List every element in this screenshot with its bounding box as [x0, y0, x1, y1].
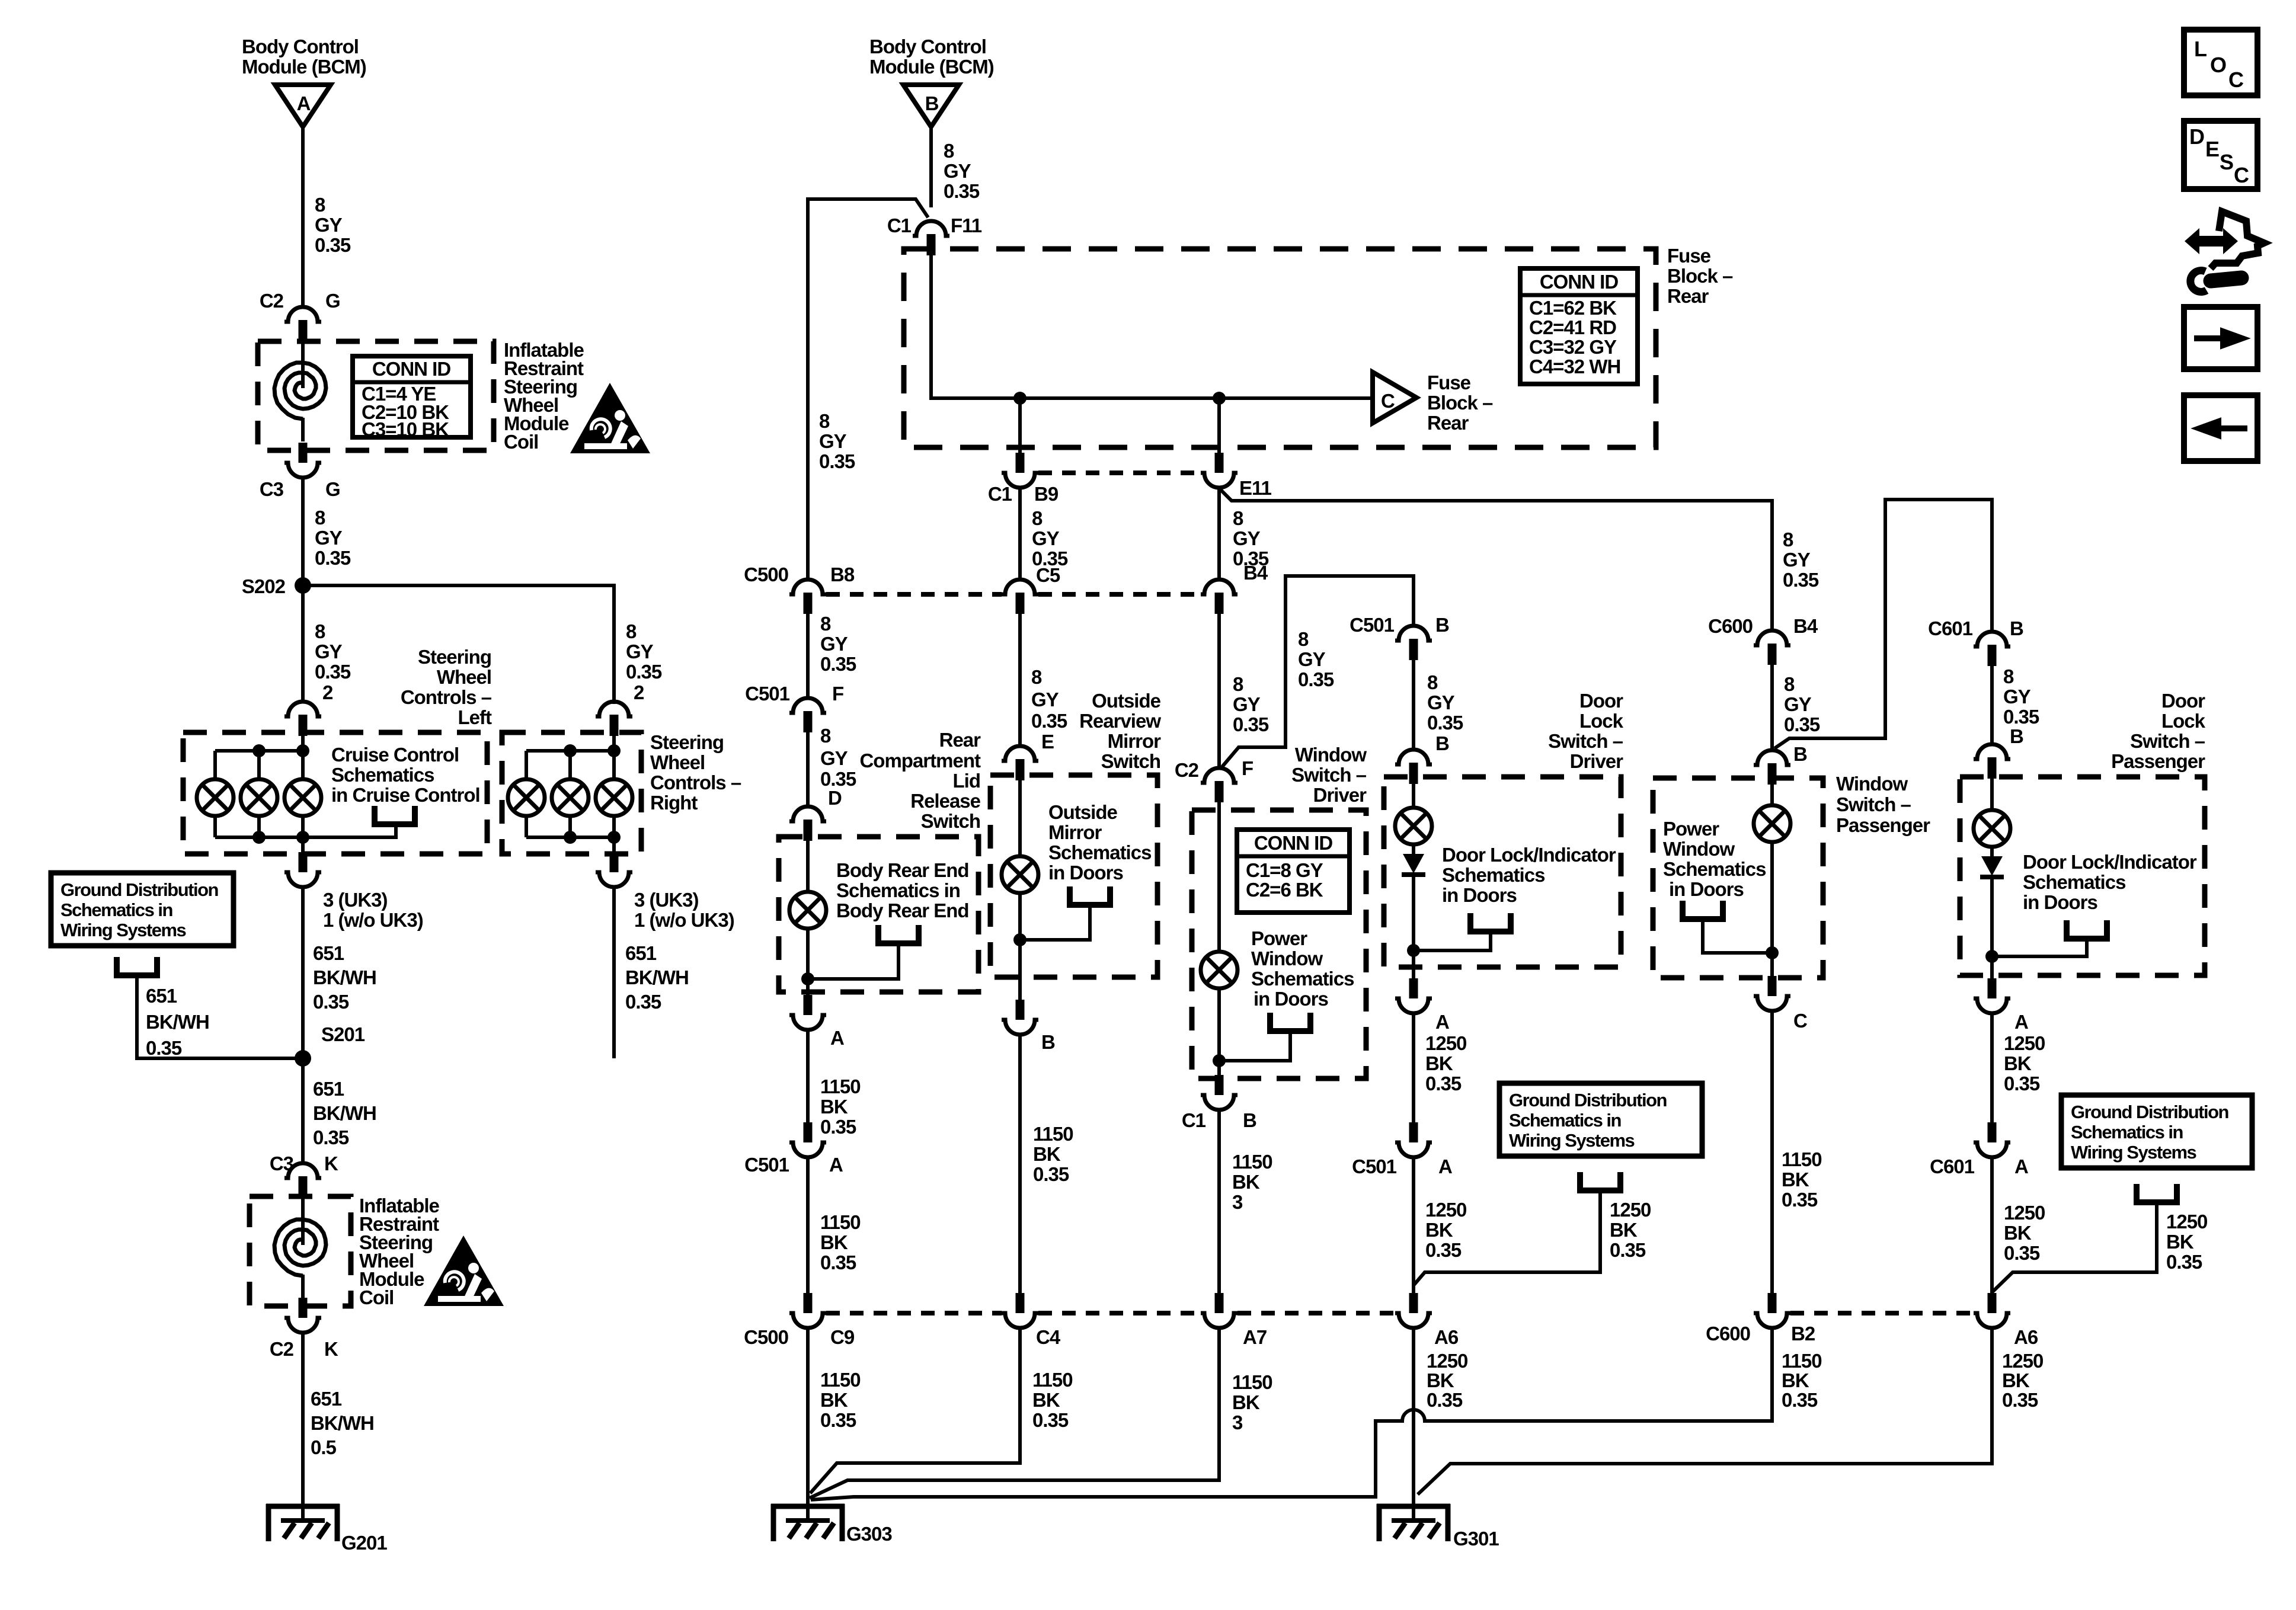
svg-text:Switch –: Switch –	[1291, 764, 1367, 786]
wire C4 to G303 route	[810, 1326, 1020, 1493]
Ground Distribution box (middle)	[1499, 1083, 1702, 1156]
svg-text:651: 651	[313, 942, 344, 964]
wire into box to lamp	[1217, 802, 1221, 952]
wire B to C500 C4	[1018, 1033, 1022, 1294]
svg-text:in Doors: in Doors	[1253, 988, 1328, 1010]
svg-text:8: 8	[315, 194, 325, 216]
svg-text:BK: BK	[1232, 1171, 1260, 1193]
svg-text:0.35: 0.35	[820, 1116, 856, 1138]
wire into box to lamp	[1990, 778, 1994, 810]
svg-text:BK: BK	[1782, 1369, 1809, 1391]
svg-text:E: E	[1041, 731, 1054, 753]
svg-text:8: 8	[1427, 671, 1438, 693]
svg-text:GY: GY	[2003, 686, 2031, 708]
CONN ID table (coil)	[353, 356, 471, 440]
svg-text:BK: BK	[1232, 1391, 1260, 1413]
outside mirror dashed box	[990, 775, 1157, 977]
svg-text:Driver: Driver	[1313, 784, 1367, 806]
svg-text:K: K	[324, 1153, 338, 1174]
svg-text:Release: Release	[910, 790, 980, 812]
svg-text:0.35: 0.35	[1784, 713, 1820, 735]
wire B2 to G303 route (hops over A6 wire)	[811, 1326, 1772, 1500]
connector C3 pin G (exit coil)	[284, 443, 321, 478]
svg-text:G303: G303	[846, 1523, 892, 1545]
connector C2 pin K (exit coil bottom)	[284, 1298, 321, 1333]
wire C9 to G303	[806, 1326, 810, 1521]
svg-text:S201: S201	[321, 1023, 365, 1045]
wire to A7	[1217, 1108, 1221, 1294]
connector exit right steering	[596, 852, 632, 887]
lamp left 3	[284, 779, 321, 816]
fuse block rear dashed box	[904, 249, 1656, 447]
wire to B	[1412, 660, 1415, 750]
svg-text:8: 8	[820, 613, 831, 635]
lamp left 2	[241, 779, 277, 816]
svg-text:A: A	[830, 1027, 844, 1049]
wire C to C600 B2	[1770, 1009, 1774, 1294]
svg-text:0.5: 0.5	[311, 1436, 337, 1458]
svg-text:Rear: Rear	[1667, 285, 1709, 307]
svg-text:C: C	[2234, 163, 2249, 187]
svg-text:0.35: 0.35	[944, 180, 980, 202]
svg-text:3 (UK3): 3 (UK3)	[634, 889, 699, 911]
bracket symbol (cruise)	[375, 806, 415, 824]
svg-text:Cruise Control: Cruise Control	[331, 744, 459, 766]
svg-text:0.35: 0.35	[315, 547, 351, 569]
wire A to C501 A	[806, 1028, 810, 1124]
ground G303	[771, 1504, 845, 1541]
bracket symbol (window driver)	[1270, 1013, 1310, 1031]
wire lamp to junction + bracket stem	[808, 929, 898, 995]
connector exit left steering	[284, 852, 321, 887]
svg-text:Schematics: Schematics	[1048, 841, 1151, 863]
driver branch U to C501 B	[1222, 576, 1414, 767]
lamp (door lock driver)	[1395, 808, 1432, 844]
svg-text:Ground Distribution: Ground Distribution	[60, 879, 219, 900]
svg-text:GY: GY	[315, 527, 343, 549]
connector C1 pin B9	[1002, 453, 1038, 488]
svg-text:Switch: Switch	[921, 810, 980, 832]
wire lamp to junction + bracket stem	[1219, 988, 1290, 1075]
svg-text:GY: GY	[1032, 527, 1060, 549]
svg-text:2: 2	[634, 681, 644, 703]
svg-text:GY: GY	[1031, 689, 1059, 710]
diode symbol (passenger)	[1990, 847, 1994, 856]
svg-text:Rearview: Rearview	[1079, 710, 1161, 732]
body rear end dashed box	[779, 837, 978, 992]
svg-text:A: A	[2014, 1011, 2028, 1033]
svg-text:Passenger: Passenger	[2111, 750, 2205, 772]
wire diode to junction + bracket stem	[1992, 878, 2087, 978]
svg-text:C4=32 WH: C4=32 WH	[1529, 356, 1620, 377]
svg-text:0.35: 0.35	[1032, 1409, 1069, 1431]
svg-text:Window: Window	[1251, 948, 1323, 969]
wire A6 to G301 route	[1418, 1326, 1992, 1494]
svg-text:BK: BK	[1425, 1219, 1453, 1241]
connector C600 pin A6 (passenger)	[1974, 1293, 2010, 1328]
svg-text:Lid: Lid	[953, 770, 980, 792]
svg-text:0.35: 0.35	[315, 661, 351, 683]
BCM triangle A	[275, 85, 331, 127]
svg-text:C600: C600	[1708, 615, 1753, 637]
connector exit pin A (driver)	[1395, 978, 1432, 1013]
lamp right 3	[596, 779, 632, 816]
svg-text:E: E	[2205, 137, 2220, 161]
wire F to D	[806, 732, 810, 807]
junction dot	[1213, 1054, 1226, 1067]
svg-text:8: 8	[820, 725, 831, 747]
svg-text:Schematics in: Schematics in	[2071, 1122, 2183, 1142]
lamp (door lock passenger)	[1974, 810, 2010, 847]
ground G201	[266, 1504, 340, 1541]
wire A to C601 A	[1990, 1012, 1994, 1124]
service/wrench icon	[2185, 212, 2264, 292]
left arrow icon box	[2184, 395, 2257, 461]
cruise control dashed box	[183, 732, 487, 854]
wire C5 to E	[1018, 613, 1022, 747]
svg-text:8: 8	[1032, 507, 1043, 529]
wire B to C1/F11	[929, 126, 933, 207]
svg-text:S: S	[2220, 150, 2234, 174]
svg-text:C500: C500	[744, 564, 788, 585]
svg-text:Left: Left	[458, 706, 493, 728]
svg-text:B: B	[1435, 732, 1449, 754]
svg-text:Switch –: Switch –	[1836, 793, 1911, 815]
svg-text:1150: 1150	[1232, 1151, 1272, 1173]
svg-text:BK: BK	[820, 1231, 848, 1253]
svg-text:Schematics: Schematics	[331, 764, 434, 786]
svg-text:C1: C1	[988, 483, 1012, 505]
svg-text:0.35: 0.35	[1425, 1073, 1462, 1094]
svg-text:B8: B8	[830, 564, 855, 585]
wire C601A down	[1990, 1156, 1994, 1294]
svg-text:0.35: 0.35	[820, 653, 856, 675]
wire lamp to junction + bracket stem	[1703, 842, 1772, 980]
svg-text:Steering: Steering	[650, 731, 724, 753]
top bus right box	[526, 751, 614, 779]
svg-text:1250: 1250	[2002, 1350, 2043, 1372]
bracket symbol (door lock driver)	[1470, 913, 1511, 932]
junction dot B9 drop	[1013, 392, 1027, 405]
clockspring coil (bottom spiral)	[274, 1219, 326, 1276]
svg-text:Window: Window	[1295, 744, 1367, 766]
svg-text:1250: 1250	[1610, 1199, 1651, 1221]
svg-text:D: D	[2189, 124, 2205, 149]
svg-text:Mirror: Mirror	[1108, 730, 1162, 752]
svg-text:A: A	[1438, 1156, 1452, 1177]
svg-text:1150: 1150	[820, 1369, 861, 1391]
wire out of coil	[301, 418, 305, 441]
svg-text:Fuse: Fuse	[1427, 372, 1471, 393]
svg-text:K: K	[324, 1338, 338, 1360]
svg-text:1150: 1150	[1782, 1148, 1822, 1170]
svg-text:GY: GY	[944, 160, 971, 182]
lamp (outside mirror)	[1002, 856, 1038, 893]
svg-text:8: 8	[1233, 673, 1243, 695]
wire diode to junction + bracket stem	[1414, 876, 1491, 978]
svg-text:BK/WH: BK/WH	[313, 966, 376, 988]
svg-text:BK/WH: BK/WH	[625, 966, 689, 988]
wire B9 to C5	[1018, 486, 1022, 580]
svg-text:A: A	[297, 92, 311, 114]
svg-text:C2=41 RD: C2=41 RD	[1529, 316, 1616, 338]
svg-text:BK: BK	[1032, 1389, 1060, 1411]
wire out of right box	[612, 837, 616, 852]
svg-text:C5: C5	[1036, 564, 1060, 586]
svg-text:A: A	[1435, 1011, 1449, 1033]
svg-text:Controls –: Controls –	[401, 686, 492, 708]
svg-text:8: 8	[626, 620, 637, 642]
wire into box	[301, 734, 305, 779]
svg-text:0.35: 0.35	[1427, 1389, 1463, 1411]
svg-text:1250: 1250	[1427, 1350, 1467, 1372]
svg-text:8: 8	[1031, 666, 1042, 688]
svg-text:BK: BK	[2004, 1052, 2032, 1074]
connector exit pin A	[789, 995, 826, 1030]
svg-text:Switch: Switch	[1101, 750, 1160, 772]
svg-text:F: F	[1242, 757, 1253, 779]
Ground Distribution box (left)	[51, 873, 234, 946]
wire down to S201 line	[612, 885, 616, 1058]
svg-text:Door: Door	[1579, 690, 1623, 712]
svg-text:C1: C1	[887, 215, 912, 236]
svg-text:GY: GY	[1784, 693, 1812, 715]
CONN ID table (window switch driver)	[1237, 830, 1350, 913]
svg-text:C2: C2	[1175, 759, 1199, 781]
svg-text:651: 651	[625, 942, 657, 964]
svg-text:Lock: Lock	[1579, 710, 1624, 732]
svg-text:Passenger: Passenger	[1836, 814, 1930, 836]
svg-text:C3=32 GY: C3=32 GY	[1529, 336, 1617, 358]
right arrow icon box	[2184, 307, 2257, 369]
junction dot E11 drop	[1213, 392, 1226, 405]
svg-text:8: 8	[2003, 665, 2014, 687]
svg-text:Rear: Rear	[939, 729, 981, 751]
svg-text:Outside: Outside	[1048, 801, 1117, 823]
connector C600 pin B2	[1754, 1293, 1790, 1328]
wire into box to lamp	[1018, 780, 1022, 856]
svg-text:Compartment: Compartment	[859, 750, 981, 772]
junction dot	[1985, 950, 1998, 963]
connector pin 2 right steering	[596, 702, 632, 736]
svg-text:0.35: 0.35	[1031, 710, 1067, 732]
svg-text:Schematics: Schematics	[2023, 871, 2125, 893]
svg-text:C2: C2	[260, 290, 284, 312]
svg-text:1250: 1250	[2004, 1202, 2045, 1224]
wire lamp to junction + bracket stem	[1020, 893, 1090, 1001]
lamp right 2	[552, 779, 589, 816]
svg-text:1150: 1150	[820, 1211, 861, 1233]
junction dot	[1766, 946, 1779, 959]
wire into box to lamp	[806, 837, 810, 892]
svg-text:2: 2	[322, 681, 333, 703]
svg-text:B: B	[2010, 617, 2023, 639]
svg-text:Ground Distribution: Ground Distribution	[2071, 1102, 2229, 1122]
svg-text:B2: B2	[1791, 1323, 1815, 1345]
svg-text:GY: GY	[1427, 692, 1455, 713]
svg-text:0.35: 0.35	[1298, 668, 1334, 690]
bracket symbol (GD middle)	[1580, 1172, 1620, 1190]
svg-text:in Cruise Control: in Cruise Control	[331, 784, 480, 806]
svg-text:Rear: Rear	[1427, 412, 1469, 434]
svg-text:A7: A7	[1243, 1326, 1267, 1348]
svg-text:A6: A6	[2014, 1326, 2038, 1348]
svg-text:A: A	[829, 1154, 843, 1176]
svg-text:BK: BK	[1425, 1052, 1453, 1074]
svg-text:Wiring Systems: Wiring Systems	[1509, 1130, 1635, 1151]
svg-text:651: 651	[146, 985, 177, 1007]
svg-text:Switch –: Switch –	[2130, 730, 2205, 752]
svg-text:1 (w/o UK3): 1 (w/o UK3)	[634, 909, 734, 931]
lamp (power window driver)	[1201, 952, 1237, 988]
svg-text:1150: 1150	[1033, 1123, 1073, 1145]
BCM triangle B	[903, 85, 959, 127]
svg-text:0.35: 0.35	[1782, 1389, 1818, 1411]
wire into box to lamp	[1770, 784, 1774, 805]
svg-text:C501: C501	[745, 683, 790, 705]
passenger branch U to C601 B	[1774, 500, 1992, 748]
svg-text:BK: BK	[2002, 1369, 2030, 1391]
svg-text:G201: G201	[341, 1532, 387, 1554]
svg-text:G: G	[325, 290, 340, 312]
wire into bottom coil	[301, 1196, 305, 1245]
svg-text:Schematics: Schematics	[1442, 864, 1544, 886]
svg-text:S202: S202	[242, 575, 286, 597]
svg-text:BK: BK	[820, 1096, 848, 1118]
svg-text:C: C	[2228, 68, 2244, 92]
svg-text:8: 8	[944, 140, 954, 162]
svg-text:Block –: Block –	[1667, 265, 1733, 287]
wire C2/K to ground	[301, 1331, 305, 1521]
connector C501 pin A (driver)	[1395, 1122, 1432, 1157]
bracket symbol (body rear end)	[878, 925, 919, 943]
svg-text:3: 3	[1232, 1411, 1243, 1433]
junction dots top bus	[252, 744, 266, 757]
splice S202	[295, 577, 311, 594]
svg-text:Steering: Steering	[418, 646, 491, 668]
svg-text:GY: GY	[1783, 549, 1811, 571]
svg-text:0.35: 0.35	[820, 1251, 856, 1273]
svg-text:A6: A6	[1434, 1326, 1459, 1348]
svg-text:BK: BK	[1033, 1143, 1061, 1165]
connector exit pin C (passenger window)	[1754, 976, 1790, 1011]
junction dot	[801, 972, 814, 985]
svg-text:C2: C2	[270, 1338, 294, 1360]
branch wire to C500 B8 column	[808, 199, 928, 580]
svg-text:BK: BK	[1427, 1369, 1454, 1391]
connector C501 pin A	[789, 1122, 826, 1157]
wire S202 to right steering column	[303, 585, 614, 704]
junction dot	[1013, 933, 1027, 946]
svg-text:8: 8	[315, 620, 325, 642]
svg-text:in Doors: in Doors	[1442, 884, 1517, 906]
ground G301	[1377, 1504, 1450, 1541]
wire to B	[1990, 665, 1994, 745]
svg-text:8: 8	[819, 410, 830, 432]
junction dots bottom bus	[252, 831, 266, 844]
wire A to C501 A	[1412, 1012, 1415, 1124]
clockspring coil U (spiral)	[274, 363, 326, 419]
wire GD middle to A6 wire	[1414, 1190, 1600, 1285]
wire GD left to S201	[137, 975, 303, 1058]
svg-text:B: B	[2010, 725, 2023, 747]
LOC icon box	[2184, 30, 2257, 95]
svg-text:0.35: 0.35	[2004, 1242, 2040, 1264]
svg-text:BK: BK	[2166, 1231, 2194, 1253]
svg-text:0.35: 0.35	[2166, 1251, 2202, 1273]
coil dashed box (top)	[258, 341, 494, 450]
wire C3 to S202	[301, 476, 305, 702]
svg-text:C601: C601	[1928, 617, 1973, 639]
svg-text:GY: GY	[1298, 648, 1326, 670]
connector exit pin B (mirror)	[1002, 1000, 1038, 1035]
svg-text:C501: C501	[744, 1154, 789, 1176]
wire A to C2	[301, 126, 305, 308]
svg-text:0.35: 0.35	[1783, 569, 1819, 591]
svg-text:GY: GY	[315, 641, 343, 662]
svg-text:C500: C500	[744, 1326, 788, 1348]
svg-text:C1: C1	[1182, 1109, 1206, 1131]
svg-text:in Doors: in Doors	[1669, 878, 1744, 900]
svg-text:Wiring Systems: Wiring Systems	[2071, 1142, 2196, 1163]
svg-text:0.35: 0.35	[313, 1126, 349, 1148]
splice S201	[295, 1050, 311, 1067]
window switch driver dashed box	[1192, 810, 1366, 1078]
svg-text:Body Control: Body Control	[869, 36, 986, 57]
svg-text:GY: GY	[1233, 693, 1261, 715]
top bus left box	[215, 751, 303, 779]
svg-text:0.35: 0.35	[313, 991, 349, 1013]
connector pin D	[789, 806, 826, 841]
diode symbol (driver)	[1412, 844, 1415, 854]
svg-text:F11: F11	[951, 215, 982, 236]
svg-text:0.35: 0.35	[2004, 1073, 2040, 1094]
bracket symbol (door lock passenger)	[2067, 920, 2107, 939]
svg-text:0.35: 0.35	[315, 234, 351, 256]
svg-text:Coil: Coil	[359, 1286, 394, 1308]
svg-text:0.35: 0.35	[1610, 1239, 1646, 1261]
svg-text:Door Lock/Indicator: Door Lock/Indicator	[1442, 844, 1616, 866]
svg-text:B: B	[1041, 1031, 1055, 1053]
svg-text:B: B	[1793, 743, 1807, 765]
CONN ID table (fuse block)	[1520, 268, 1638, 384]
junction dot	[1407, 944, 1420, 957]
connector pin B (entry)	[1395, 750, 1432, 784]
svg-text:Module (BCM): Module (BCM)	[869, 56, 994, 78]
svg-text:GY: GY	[1233, 527, 1261, 549]
svg-text:0.35: 0.35	[819, 450, 855, 472]
svg-text:C9: C9	[830, 1326, 855, 1348]
svg-text:Coil: Coil	[504, 431, 538, 453]
lamp (power window passenger)	[1754, 805, 1790, 842]
window switch passenger dashed box	[1653, 778, 1823, 978]
svg-text:B9: B9	[1034, 483, 1059, 505]
svg-text:BK: BK	[1782, 1169, 1809, 1190]
connector E11	[1201, 453, 1237, 488]
wire A7 to G303 route	[810, 1326, 1219, 1498]
svg-text:1150: 1150	[1232, 1371, 1272, 1393]
svg-text:C1=62 BK: C1=62 BK	[1529, 297, 1617, 319]
svg-text:O: O	[2210, 53, 2227, 77]
bracket symbol (window passenger)	[1683, 901, 1723, 919]
svg-text:Outside: Outside	[1092, 690, 1160, 712]
svg-text:0.35: 0.35	[1233, 713, 1269, 735]
svg-text:0.35: 0.35	[1425, 1239, 1462, 1261]
bracket symbol (GD right)	[2137, 1184, 2177, 1202]
svg-text:Block –: Block –	[1427, 392, 1493, 414]
svg-text:3: 3	[1232, 1191, 1243, 1213]
svg-text:8: 8	[1784, 673, 1795, 695]
